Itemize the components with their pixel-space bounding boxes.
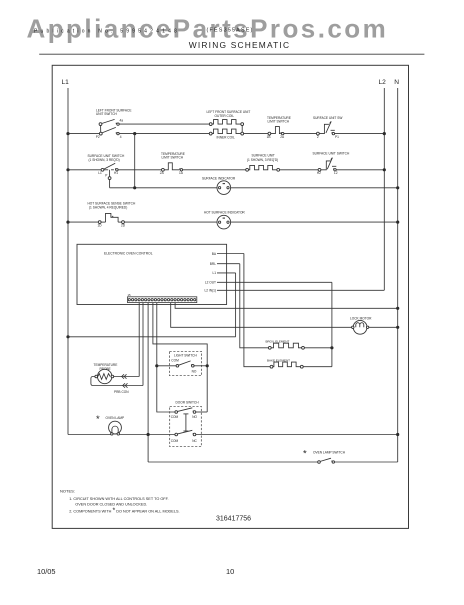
svg-text:10: 10 — [226, 567, 234, 576]
resistor inner coil — [209, 132, 212, 135]
wire row2 left — [68, 169, 101, 171]
svg-text:1. CIRCUIT SHOWN WITH ALL CON: 1. CIRCUIT SHOWN WITH ALL CONTROLS SET T… — [69, 497, 168, 501]
wire row2 to right surface unit switch — [280, 169, 319, 171]
resistor broil element — [268, 346, 271, 349]
svg-text:15: 15 — [128, 293, 132, 297]
switch door switch lower contacts — [175, 430, 196, 436]
svg-text:UNIT SWITCH: UNIT SWITCH — [96, 112, 118, 116]
connector PRB CON chevrons top — [122, 374, 127, 378]
wire row2 to surface unit resistor — [183, 169, 246, 171]
svg-text:10/05: 10/05 — [37, 567, 56, 576]
wire L1 bus — [67, 88, 69, 435]
wire L1 bus to control — [68, 336, 236, 338]
svg-text:LIMIT SWITCH: LIMIT SWITCH — [162, 156, 184, 160]
resistor outer coil — [209, 123, 212, 126]
junction row3-N — [396, 221, 399, 224]
switch light switch box — [170, 351, 202, 375]
wire row1 to temp limit — [244, 133, 268, 135]
svg-text:2: 2 — [317, 135, 319, 139]
wire probe bottom loop to pin — [91, 377, 143, 386]
wire row1 upper branch to outer coil — [119, 123, 209, 125]
switch door switch upper contacts — [175, 408, 196, 414]
junction tap-indicator — [133, 186, 136, 189]
svg-text:L1: L1 — [212, 271, 216, 275]
wire BA vertical to bake — [244, 254, 270, 367]
svg-text:L2 OUT: L2 OUT — [205, 281, 216, 285]
switch surface unit sw — [317, 121, 335, 135]
junction lamp row N — [396, 433, 399, 436]
svg-text:P2: P2 — [96, 135, 100, 139]
junction light switch feed — [155, 364, 158, 367]
wire pin to switches NO feed — [153, 303, 207, 412]
svg-text:WIRING SCHEMATIC: WIRING SCHEMATIC — [189, 40, 290, 50]
wire probe top to pin — [114, 376, 140, 378]
junction L1-row2 — [66, 168, 69, 171]
svg-text:4a: 4a — [120, 119, 124, 123]
wire bake to L2 OUT vertical — [303, 366, 332, 368]
svg-text:2. COMPONENTS WITH * DO NOT: 2. COMPONENTS WITH * DO NOT APPEAR ON AL… — [69, 507, 179, 514]
svg-text:INNER COIL: INNER COIL — [217, 136, 235, 140]
switch oven lamp switch — [318, 458, 335, 463]
junction motor-N — [396, 326, 399, 329]
wire BRL output — [217, 263, 240, 265]
wire lamp switch row left — [148, 461, 318, 463]
svg-text:*: * — [303, 449, 307, 460]
wire BA output — [217, 253, 244, 255]
svg-text:Publication No. 5995424148: Publication No. 5995424148 — [34, 29, 180, 35]
junction N row — [396, 307, 399, 310]
svg-text:PRB CON: PRB CON — [114, 390, 129, 394]
svg-text:OVEN LAMP: OVEN LAMP — [106, 416, 125, 420]
wire lamp row left — [68, 434, 111, 436]
wire row3 left — [68, 221, 98, 223]
resistor surface unit — [246, 168, 249, 171]
junction L1 bus row — [66, 335, 69, 338]
wire L2 bus — [383, 88, 385, 290]
svg-text:316417756: 316417756 — [216, 515, 251, 522]
svg-text:COM: COM — [171, 358, 179, 362]
svg-text:1B: 1B — [267, 135, 271, 139]
svg-text:2D: 2D — [121, 223, 126, 227]
wire to light switch COM — [157, 365, 176, 367]
svg-text:NO: NO — [192, 415, 197, 419]
motor lock motor — [352, 320, 369, 334]
connector PRB CON chevrons bottom — [123, 383, 128, 387]
svg-text:H1: H1 — [114, 171, 118, 175]
svg-text:SURFACE UNIT SWITCH: SURFACE UNIT SWITCH — [313, 152, 350, 156]
wire row1 to L2 bus — [335, 133, 385, 135]
svg-text:H2: H2 — [317, 171, 321, 175]
svg-text:NC: NC — [192, 439, 197, 443]
switch light switch contacts — [176, 361, 194, 367]
junction lamp switch branch — [147, 433, 150, 436]
wire lamp switch row right — [335, 461, 398, 463]
junction L1-row1 — [66, 132, 69, 135]
wire door NO to feed vertical — [196, 411, 207, 413]
wire row3 to hot indicator — [124, 221, 397, 223]
junction broil-L2OUT — [330, 346, 333, 349]
svg-text:NO: NO — [192, 369, 197, 373]
wire row1 lower to inner coil — [119, 133, 209, 135]
wire L2 OUT output — [217, 281, 332, 283]
svg-text:L2 IN(1): L2 IN(1) — [204, 289, 216, 293]
connector strip P15 — [128, 297, 197, 303]
wire broil to L2 OUT vertical — [304, 347, 332, 349]
link door switch mechanical — [183, 414, 188, 431]
svg-text:*: * — [96, 414, 100, 425]
svg-text:1D: 1D — [98, 223, 103, 227]
svg-text:DOOR SWITCH: DOOR SWITCH — [176, 400, 200, 404]
wire L1 vertical — [235, 273, 237, 337]
svg-text:(1 SHOWN, 4 REQUIRED): (1 SHOWN, 4 REQUIRED) — [89, 205, 127, 209]
wire pin to lock motor — [171, 303, 353, 328]
wire row2 to L2 bus — [336, 169, 384, 171]
junction row1-L2 — [383, 132, 386, 135]
svg-text:HOT SURFACE INDICATOR: HOT SURFACE INDICATOR — [204, 211, 245, 215]
wire lock motor to N bus — [369, 326, 398, 328]
svg-text:COM: COM — [171, 439, 179, 443]
switch door switch box — [170, 406, 202, 446]
svg-text:L2: L2 — [379, 79, 387, 86]
resistor temperature probe — [95, 369, 114, 383]
svg-text:(1 SHOWN, 3 REQ'D): (1 SHOWN, 3 REQ'D) — [89, 158, 120, 162]
junction NO feed — [206, 364, 209, 367]
wire L1 output — [217, 272, 236, 274]
svg-text:OVEN DOOR CLOSED AND UNLOCKED.: OVEN DOOR CLOSED AND UNLOCKED. — [75, 502, 147, 506]
switch temperature limit switch row2 — [162, 163, 183, 171]
svg-text:LIGHT SWITCH: LIGHT SWITCH — [174, 353, 197, 357]
wire surface indicator line — [110, 187, 398, 189]
wire N bus — [397, 88, 399, 462]
wire row2 to temp limit — [118, 169, 161, 171]
switch hot surface sense switch — [98, 213, 124, 223]
svg-text:P: P — [105, 173, 107, 177]
svg-text:SURFACE INDICATOR: SURFACE INDICATOR — [202, 176, 236, 180]
svg-text:L1: L1 — [62, 79, 70, 86]
svg-text:ELECTRONIC OVEN CONTROL: ELECTRONIC OVEN CONTROL — [104, 252, 153, 256]
junction row1 tap — [133, 132, 136, 135]
svg-text:4: 4 — [120, 135, 122, 139]
wire pin to switches COM feed — [157, 303, 175, 412]
svg-text:N: N — [394, 79, 399, 86]
svg-text:OUTER COIL: OUTER COIL — [215, 114, 235, 118]
wire row1 left — [68, 133, 100, 135]
wire tap down to indicator line — [134, 134, 136, 188]
switch surface unit switch right — [318, 158, 336, 172]
wire BRL vertical to broil — [240, 264, 269, 348]
wire row1 to surface unit sw — [284, 133, 317, 135]
lamp surface indicator — [217, 181, 231, 195]
svg-text:BRL: BRL — [210, 262, 216, 266]
title rule — [39, 53, 424, 55]
svg-text:BROIL ELEMENT: BROIL ELEMENT — [266, 339, 290, 343]
wire coil join — [241, 126, 243, 133]
svg-text:L2: L2 — [334, 171, 338, 175]
wire L2 IN to L2 bus — [217, 289, 384, 291]
switch surface unit switch row2 — [101, 163, 118, 188]
wire light NO to feed vertical — [194, 365, 207, 367]
svg-text:L1: L1 — [98, 171, 102, 175]
svg-text:(FES355ASE): (FES355ASE) — [207, 28, 254, 34]
lamp oven lamp — [109, 421, 122, 435]
wire pin to probe top — [138, 303, 140, 377]
svg-text:(1 SHOWN, 3 REQ'D): (1 SHOWN, 3 REQ'D) — [247, 158, 278, 162]
wire pin to N bus — [175, 303, 398, 309]
switch temperature limit switch row1 — [268, 127, 284, 135]
schematic border frame — [52, 65, 408, 528]
wire L2 OUT vertical — [331, 282, 333, 366]
svg-text:LIMIT SWITCH: LIMIT SWITCH — [268, 120, 290, 124]
svg-text:COM: COM — [171, 415, 179, 419]
wire pin to probe bottom — [142, 303, 144, 386]
svg-text:SURFACE UNIT SW: SURFACE UNIT SW — [313, 116, 342, 120]
op-box electronic oven control — [77, 244, 227, 304]
lamp hot surface indicator — [217, 215, 231, 229]
junction row2-L2 — [383, 168, 386, 171]
svg-text:OVEN LAMP SWITCH: OVEN LAMP SWITCH — [313, 451, 346, 455]
wire lamp row middle — [120, 434, 175, 436]
switch S1 left front surface unit switch — [99, 119, 119, 135]
resistor bake element — [270, 365, 273, 368]
junction L1-row3 — [66, 221, 69, 224]
wire pin to oven lamp junction — [147, 303, 149, 462]
svg-text:LOCK MOTOR: LOCK MOTOR — [350, 317, 372, 321]
junction indicator-N — [396, 186, 399, 189]
svg-text:NOTES:: NOTES: — [60, 488, 75, 493]
svg-text:P1: P1 — [335, 135, 339, 139]
wire lamp row right to N bus — [196, 434, 398, 436]
